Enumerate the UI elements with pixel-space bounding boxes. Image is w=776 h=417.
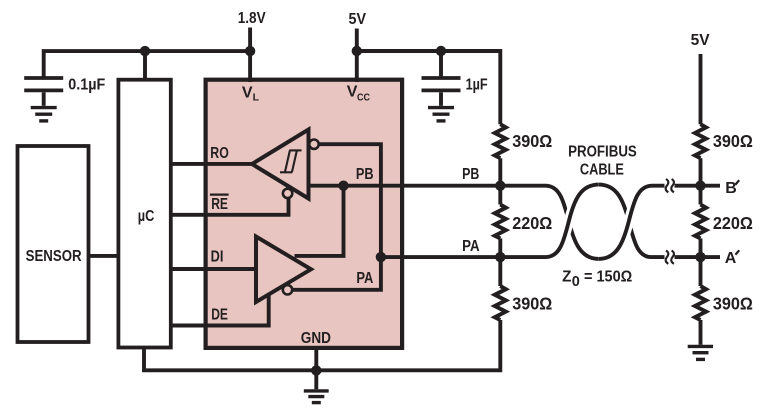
- hysteresis symbol: [280, 150, 302, 172]
- label Z0 = 150ohm: [562, 269, 633, 291]
- label B' node: [725, 180, 739, 197]
- wire line B resume after break: [675, 184, 701, 188]
- wire ground rail: [144, 320, 500, 370]
- svg-text:B: B: [725, 180, 737, 197]
- label RE pin with overline: [210, 195, 229, 213]
- ground under C2: [428, 108, 454, 121]
- svg-text:V: V: [242, 84, 253, 101]
- resistor R1 390ohm left top: [495, 124, 506, 158]
- junction node PA internal: [376, 252, 386, 262]
- wire SENSOR to uC: [88, 254, 119, 258]
- receiver amplifier: [252, 130, 309, 199]
- SENSOR box: [18, 146, 89, 342]
- wire line A resume after break: [675, 255, 701, 259]
- driver amplifier: [256, 237, 311, 303]
- svg-text:Z: Z: [562, 269, 572, 286]
- junction node 1.8V/VL: [245, 46, 255, 56]
- svg-text:RE: RE: [211, 196, 228, 213]
- svg-text:SENSOR: SENSOR: [26, 248, 82, 265]
- wire 5V rail to left termination column: [357, 51, 501, 124]
- wire A' stub: [701, 255, 721, 259]
- wire PA net receiver inverting input to driver inverting output: [293, 144, 381, 290]
- svg-text:DE: DE: [211, 307, 228, 324]
- svg-text:390Ω: 390Ω: [713, 131, 753, 151]
- svg-text:PROFIBUS: PROFIBUS: [568, 144, 637, 161]
- svg-text:PB: PB: [356, 166, 374, 183]
- ground under C1: [31, 108, 57, 121]
- wire RO: [171, 162, 252, 166]
- wire PB branch to driver noninverting output: [295, 186, 344, 256]
- wire twisted pair line B left descending under: [546, 186, 599, 259]
- svg-text:1.8V: 1.8V: [238, 10, 266, 27]
- label VL pin: [242, 84, 260, 103]
- capacitor C2 1uF: [422, 78, 461, 106]
- svg-text:PB: PB: [462, 166, 479, 183]
- wire R6 to ground: [699, 320, 703, 345]
- wire R5 to A' node: [699, 239, 703, 287]
- svg-text:CABLE: CABLE: [580, 161, 624, 178]
- svg-text:390Ω: 390Ω: [512, 131, 552, 151]
- wire 1.8V rail to 0.1uF cap: [44, 51, 250, 77]
- junction node PB internal: [338, 181, 348, 191]
- wire R2 to PA node: [498, 239, 502, 287]
- junction node 5V/C2: [436, 46, 446, 56]
- junction node A': [695, 252, 705, 262]
- junction node B': [695, 181, 705, 191]
- svg-text:0: 0: [572, 274, 580, 290]
- ground symbol under GND pin: [304, 391, 329, 403]
- wire RE: [171, 198, 289, 214]
- wire R1 to PB node: [498, 158, 502, 204]
- svg-text:RO: RO: [210, 145, 229, 162]
- svg-text:5V: 5V: [691, 32, 710, 49]
- junction node PB termination: [495, 181, 505, 191]
- svg-text:µC: µC: [138, 208, 155, 225]
- svg-text:L: L: [253, 92, 260, 104]
- wire DI: [171, 267, 257, 271]
- ground symbol right column: [688, 346, 713, 359]
- wire 1.8V supply stub into VL pin: [248, 28, 252, 83]
- wire uC top supply stub: [143, 51, 147, 82]
- resistor R5 220ohm right: [695, 205, 706, 239]
- wire 1uF cap stub: [439, 51, 443, 77]
- uC box: [118, 80, 170, 348]
- wire GND pin stub: [314, 347, 318, 390]
- break marks line A: [666, 251, 674, 264]
- wire 5V supply stub into VCC pin: [355, 29, 359, 83]
- label A' node: [725, 250, 739, 267]
- svg-text:220Ω: 220Ω: [713, 213, 753, 233]
- receiver inverting input bubble: [309, 140, 318, 149]
- svg-text:0.1µF: 0.1µF: [68, 76, 105, 93]
- svg-text:PA: PA: [356, 270, 373, 287]
- svg-text:390Ω: 390Ω: [512, 294, 552, 314]
- driver inverting output bubble: [283, 285, 292, 294]
- svg-text:= 150Ω: = 150Ω: [584, 269, 633, 286]
- svg-text:390Ω: 390Ω: [713, 294, 753, 314]
- svg-text:GND: GND: [301, 330, 331, 347]
- wire twisted pair line A right descending under: [599, 185, 665, 258]
- resistor R4 390ohm right top: [695, 124, 706, 158]
- junction node ground rail: [311, 365, 321, 375]
- wire B' stub: [701, 184, 721, 188]
- svg-text:1µF: 1µF: [466, 76, 488, 93]
- wire PB net from receiver input to cable: [309, 184, 547, 188]
- wire twisted pair line A left ascending over B: [546, 185, 599, 258]
- wire right 5V column: [699, 54, 703, 124]
- svg-text:220Ω: 220Ω: [512, 213, 552, 233]
- svg-text:PA: PA: [462, 238, 480, 255]
- svg-text:A: A: [725, 250, 737, 267]
- wire twisted pair line B right ascending over A: [599, 186, 665, 259]
- svg-text:DI: DI: [211, 248, 224, 265]
- junction node PA termination: [495, 252, 505, 262]
- wire PA out to cable: [381, 255, 546, 259]
- wire R4 to B' node: [699, 158, 703, 204]
- break marks line B: [666, 179, 674, 192]
- svg-text:5V: 5V: [349, 11, 367, 28]
- label PROFIBUS CABLE: [568, 144, 637, 179]
- transceiver U1 body: [206, 80, 403, 348]
- resistor R2 220ohm left: [495, 205, 506, 239]
- capacitor C1 0.1uF: [24, 78, 63, 106]
- wire DE: [171, 295, 269, 326]
- label VCC pin: [347, 83, 371, 103]
- resistor R3 390ohm left bottom: [495, 286, 506, 320]
- svg-text:CC: CC: [357, 92, 370, 104]
- junction node 5V/VCC: [352, 46, 362, 56]
- resistor R6 390ohm right bottom: [695, 286, 706, 320]
- junction node 1.8V/uC: [140, 46, 150, 56]
- receiver enable bubble: [283, 189, 292, 198]
